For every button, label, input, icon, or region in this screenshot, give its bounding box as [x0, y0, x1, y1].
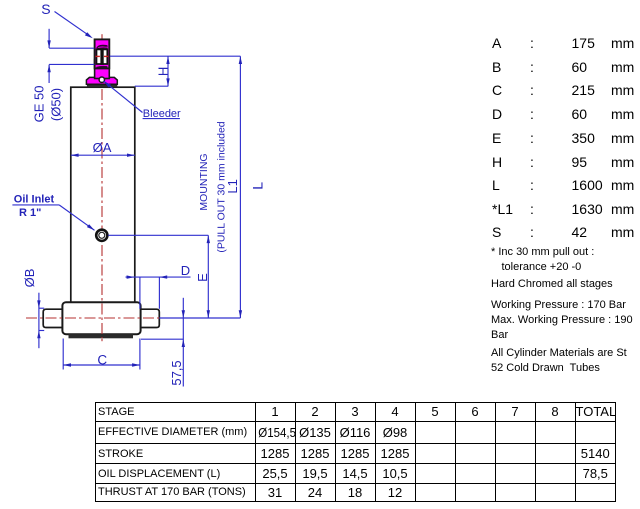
- blue labels: [14, 1, 266, 386]
- rod-end column: [95, 60, 110, 79]
- blue dimension graphics: [12, 12, 240, 387]
- arrow OA left: [71, 154, 79, 157]
- leader oil inlet: [59, 205, 94, 230]
- arrow GE50 bottom: [47, 64, 50, 72]
- rod-end lower band mark: [96, 66, 107, 68]
- dim OB extension lines: [39, 307, 44, 309]
- arrow L1 bottom: [239, 310, 242, 318]
- arrow D left: [127, 275, 135, 278]
- dimension list: [492, 0, 640, 400]
- dim 57.5 extension line: [141, 338, 184, 340]
- centerline horizontal (trunnion axis): [26, 317, 159, 319]
- svg-text:Bleeder: Bleeder: [143, 108, 181, 120]
- bleeder text underline: [143, 118, 180, 120]
- centerline vertical (cylinder axis): [101, 89, 103, 341]
- svg-text:(Ø50): (Ø50): [48, 88, 63, 121]
- arrow OB top: [37, 300, 40, 308]
- dim E extension from port: [108, 234, 208, 236]
- oil inlet text underline: [12, 204, 59, 206]
- arrow C left: [63, 363, 71, 366]
- stage table: [95, 402, 616, 502]
- arrow S leader: [85, 32, 93, 38]
- arrowheads: [37, 32, 242, 367]
- arrow oil inlet leader: [87, 224, 95, 230]
- arrow 57.5 bottom: [182, 339, 185, 347]
- arrow H bottom: [166, 78, 169, 86]
- dim H bottom extension: [135, 85, 169, 87]
- eye window red centerline dashes: [95, 55, 108, 57]
- dim C extension lines: [62, 339, 64, 370]
- centerline vertical top segment: [101, 34, 103, 39]
- rod-end eye outer: [95, 39, 110, 68]
- dim D extension lines: [139, 277, 141, 309]
- arrow E top: [207, 235, 210, 243]
- svg-text:57,5: 57,5: [169, 360, 184, 385]
- rod-end swirl band: [96, 45, 108, 49]
- cylinder body: [71, 87, 135, 303]
- arrow 57.5 top: [182, 310, 185, 318]
- arrow GE50 top: [47, 40, 50, 48]
- bottom cap strip: [69, 334, 134, 338]
- dim D line: [126, 276, 191, 278]
- svg-text:C: C: [97, 353, 107, 368]
- trunnion left pin: [43, 309, 62, 327]
- svg-text:E: E: [195, 273, 210, 282]
- bleeder hole: [99, 77, 104, 82]
- dim H vertical line: [167, 56, 169, 86]
- trunnion centerline blue extension: [159, 317, 240, 319]
- trunnion right pin: [141, 309, 160, 327]
- arrow D right: [159, 275, 167, 278]
- svg-text:S: S: [41, 1, 50, 17]
- dim L1 vertical line: [239, 56, 241, 318]
- rod-end flange strip: [87, 84, 117, 87]
- svg-text:H: H: [155, 67, 170, 76]
- svg-text:Oil Inlet: Oil Inlet: [14, 193, 55, 205]
- svg-text:D: D: [181, 263, 190, 278]
- svg-text:ØA: ØA: [93, 140, 112, 155]
- rod-end eye window: [97, 49, 108, 64]
- dim OB vertical line: [38, 293, 40, 349]
- svg-text:L: L: [250, 182, 266, 190]
- trunnion body: [62, 302, 140, 334]
- arrow OA right: [127, 154, 135, 157]
- leader bleeder: [104, 81, 143, 112]
- svg-text:GE 50: GE 50: [32, 86, 47, 123]
- dim OA arrow line: [71, 154, 135, 156]
- arrow H top: [166, 56, 169, 64]
- dim C arrow line: [63, 364, 140, 366]
- dim GE50 extension lines: [49, 47, 94, 49]
- arrow L1 top: [239, 56, 242, 64]
- arrow OB bottom: [37, 331, 40, 339]
- arrow E bottom: [207, 310, 210, 318]
- svg-text:R 1": R 1": [19, 207, 41, 219]
- svg-text:ØB: ØB: [22, 269, 37, 288]
- svg-text:MOUNTING: MOUNTING: [198, 153, 210, 210]
- oil inlet port: [96, 230, 107, 241]
- rod-end flange: [86, 77, 117, 84]
- leader S: [55, 12, 91, 37]
- arrow bleeder leader: [104, 81, 111, 87]
- pin centerline extension (to L dim): [110, 55, 241, 57]
- notes: [491, 245, 594, 260]
- svg-text:L1: L1: [225, 179, 240, 193]
- dim E vertical line: [207, 235, 209, 318]
- dim 57.5 vertical line: [182, 298, 184, 387]
- rod-end eye center bar: [100, 49, 103, 65]
- dim GE50 vertical line: [48, 29, 50, 48]
- arrow C right: [132, 363, 140, 366]
